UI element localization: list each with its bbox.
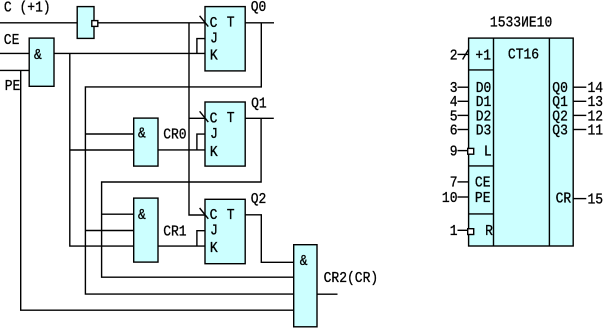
inverter U1 output bubble (92, 21, 98, 27)
wire Q1 stub to CR1 (102, 213, 134, 215)
pin name D1 (476, 94, 492, 111)
flip-flop FF1 C label (210, 111, 218, 128)
svg-text:+1: +1 (475, 48, 491, 65)
wire CR0 output jog to FF1 J (197, 134, 205, 150)
wire CR0 output to FF1 K (158, 149, 205, 151)
svg-text:&: & (300, 253, 308, 270)
node Q2 output label (251, 191, 267, 208)
node Q0 output label (251, 0, 267, 16)
flip-flop FF1 K label (210, 144, 218, 161)
svg-text:1: 1 (450, 223, 458, 240)
wire CR2 carry output (317, 293, 338, 295)
svg-text:K: K (210, 240, 218, 257)
pin 13 stub (573, 100, 586, 102)
net label CR1 (163, 224, 186, 241)
pin 3 stub (458, 86, 469, 88)
pin name CE (475, 175, 491, 192)
IC U3 body (469, 38, 574, 246)
pin name D0 (476, 80, 492, 97)
flip-flop FF2 body (205, 199, 245, 263)
pin 11 number (588, 123, 604, 140)
pin 12 number (588, 109, 604, 126)
svg-text:10: 10 (442, 190, 458, 207)
pin 2 stub (+1 clock) (458, 53, 469, 55)
wire enable stub to CR0 (70, 149, 134, 151)
flip-flop FF0 C label (210, 15, 218, 32)
flip-flop FF2 C label (210, 207, 218, 224)
IC title 1533IE10 (490, 15, 552, 32)
flip-flop FF0 dynamic clock slash (200, 16, 209, 27)
svg-text:&: & (138, 126, 146, 143)
pin 14 stub (573, 86, 586, 88)
flip-flop FF0 J label (210, 31, 218, 48)
svg-text:CR0: CR0 (163, 127, 186, 144)
svg-text:6: 6 (450, 123, 458, 140)
svg-text:J: J (210, 126, 218, 143)
svg-text:11: 11 (588, 123, 604, 140)
and gate CR2 symbol (300, 253, 308, 270)
flip-flop FF2 J label (210, 223, 218, 240)
svg-text:K: K (210, 144, 218, 161)
pin 12 stub (573, 114, 586, 116)
wire clock distribution vertical (189, 23, 205, 215)
svg-text:T: T (227, 207, 235, 224)
IC U3 function label CT16 (508, 47, 539, 64)
pin name L (484, 144, 492, 161)
and gate CR2 (294, 245, 317, 327)
and gate CR0 (134, 118, 158, 166)
svg-text:T: T (227, 15, 235, 32)
svg-text:L: L (484, 144, 492, 161)
flip-flop FF2 T label (227, 207, 235, 224)
pin 9 stub (458, 150, 469, 152)
wire Q0 feedback (85, 23, 293, 294)
wire clock stub to FF1 C (189, 117, 205, 119)
node PE input label (5, 78, 21, 95)
pin name Q1 (552, 94, 568, 111)
flip-flop FF1 dynamic clock slash (200, 111, 209, 122)
pin 7 stub (458, 181, 469, 183)
IC U3 separator below L (469, 165, 494, 167)
svg-text:Q2: Q2 (251, 191, 267, 208)
IC U3 separator below +1 (469, 69, 494, 71)
and gate U2 (CE*PE) (29, 38, 54, 86)
pin 14 number (588, 80, 604, 97)
svg-text:R: R (485, 223, 493, 240)
and gate U2 symbol (34, 47, 42, 64)
svg-text:&: & (34, 47, 42, 64)
wire CE input (0, 52, 29, 54)
svg-text:K: K (210, 48, 218, 65)
svg-text:C: C (210, 111, 218, 128)
wire Q0 stub to CR1 (85, 230, 133, 232)
flip-flop FF1 body (205, 102, 245, 166)
svg-text:PE: PE (475, 190, 491, 207)
flip-flop FF0 K label (210, 48, 218, 65)
wire inverter output to FF0 clock (98, 22, 205, 24)
pin name Q2 (552, 109, 568, 126)
wire C input (0, 22, 77, 24)
flip-flop FF2 K label (210, 240, 218, 257)
wire Q1 output (245, 117, 274, 119)
svg-text:CR1: CR1 (163, 224, 186, 241)
inverter U1 (77, 7, 94, 39)
pin 1 inversion bubble (468, 229, 474, 235)
pin name +1 (475, 48, 491, 65)
svg-text:CE: CE (4, 32, 20, 49)
net label CR0 (163, 127, 186, 144)
svg-text:1533ИЕ10: 1533ИЕ10 (490, 15, 552, 32)
pin name R (485, 223, 493, 240)
pin 15 stub (573, 198, 586, 200)
svg-text:9: 9 (450, 144, 458, 161)
pin 1 number (450, 223, 458, 240)
svg-text:CR2(CR): CR2(CR) (324, 270, 379, 287)
pin 15 number (588, 192, 604, 209)
wire CR1 output jog to FF2 J (197, 231, 205, 246)
svg-text:PE: PE (5, 78, 21, 95)
svg-text:C: C (210, 207, 218, 224)
flip-flop FF1 J label (210, 126, 218, 143)
pin 10 number (442, 190, 458, 207)
wire Q0 output (245, 22, 274, 24)
svg-text:2: 2 (450, 48, 458, 65)
svg-text:CT16: CT16 (508, 47, 539, 64)
pin name Q0 (552, 80, 568, 97)
wire PE to CR2 gate (carry enable) (21, 70, 294, 310)
svg-text:&: & (138, 207, 146, 224)
svg-text:T: T (227, 110, 235, 127)
wire Q1 feedback (102, 118, 294, 277)
pin name CR (556, 191, 572, 208)
node CE input label (4, 32, 20, 49)
svg-text:CR: CR (556, 191, 572, 208)
IC U3 left column divider (493, 38, 495, 246)
pin 3 number (450, 80, 458, 97)
pin 4 number (450, 94, 458, 111)
svg-text:D3: D3 (476, 123, 492, 140)
flip-flop FF1 T label (227, 110, 235, 127)
pin 11 stub (573, 129, 586, 131)
pin 13 number (588, 94, 604, 111)
flip-flop FF0 body (205, 7, 245, 71)
pin 2 number (450, 48, 458, 65)
wire PE input (0, 69, 29, 71)
flip-flop FF0 T label (227, 15, 235, 32)
pin 7 number (450, 175, 458, 192)
svg-text:J: J (210, 31, 218, 48)
and gate CR0 symbol (138, 126, 146, 143)
svg-text:15: 15 (588, 192, 604, 209)
svg-text:C (+1): C (+1) (4, 0, 51, 17)
pin 10 stub (458, 196, 469, 198)
IC U3 right column divider (548, 38, 550, 246)
wire U2 output jog to FF0 J (197, 39, 205, 54)
pin 9 inversion bubble (468, 148, 474, 154)
svg-text:Q1: Q1 (251, 96, 267, 113)
pin name D3 (476, 123, 492, 140)
svg-text:J: J (210, 223, 218, 240)
wire Q0 stub to CR0 (85, 133, 133, 135)
pin 6 number (450, 123, 458, 140)
and gate CR1 symbol (138, 207, 146, 224)
IC U3 separator below PE (469, 213, 494, 215)
pin 4 stub (458, 100, 469, 102)
pin name PE (475, 190, 491, 207)
wire Q2 to CR2 gate (245, 215, 294, 262)
pin 5 stub (458, 114, 469, 116)
svg-text:Q3: Q3 (552, 123, 568, 140)
pin name D2 (476, 109, 492, 126)
pin 9 number (450, 144, 458, 161)
pin 6 stub (458, 129, 469, 131)
svg-text:C: C (210, 15, 218, 32)
wire U2 output to FF0 J,K (54, 52, 205, 54)
svg-text:Q0: Q0 (251, 0, 267, 16)
wire CR1 output to FF2 K (158, 245, 205, 247)
flip-flop FF2 dynamic clock slash (200, 208, 209, 219)
pin 5 number (450, 109, 458, 126)
net label CR2(CR) (324, 270, 379, 287)
pin name Q3 (552, 123, 568, 140)
pin 2 dynamic slash (463, 49, 469, 59)
node C (+1) input label (4, 0, 51, 17)
wire enable vertical to CR0/CR1 (70, 53, 134, 246)
pin 1 stub (458, 229, 469, 231)
and gate CR1 (134, 198, 158, 262)
node Q1 output label (251, 96, 267, 113)
